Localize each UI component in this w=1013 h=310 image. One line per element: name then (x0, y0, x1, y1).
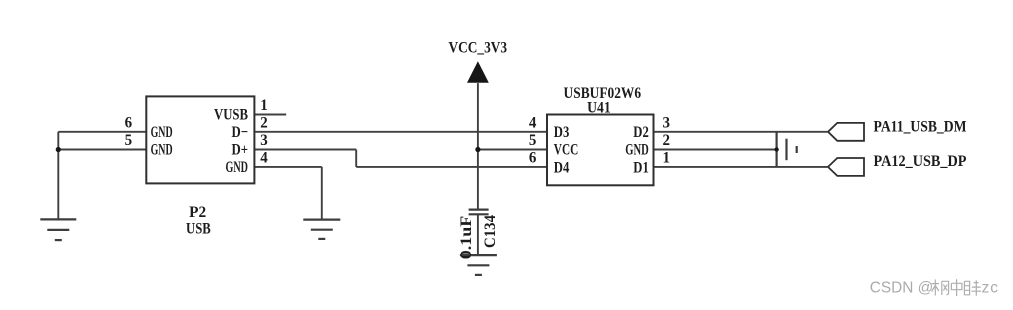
svg-text:GND: GND (625, 142, 649, 159)
svg-text:GND: GND (226, 159, 249, 176)
wire U41 pin2 GND (654, 149, 777, 151)
svg-text:1: 1 (260, 97, 268, 114)
svg-text:4: 4 (260, 150, 268, 167)
svg-text:D3: D3 (554, 124, 570, 141)
connector P2 box (146, 96, 254, 183)
wire D+ net to U41 pin6 (356, 166, 547, 168)
wire U41 pin1 to flag PA12 (654, 166, 828, 168)
svg-text:PA11_USB_DM: PA11_USB_DM (874, 118, 967, 135)
net flag PA11_USB_DM (828, 123, 864, 141)
svg-text:GND: GND (151, 142, 173, 159)
glyph feng (maple) (932, 280, 940, 296)
svg-text:P2: P2 (189, 204, 206, 221)
wire pin5 GND left (58, 149, 146, 151)
svg-text:0.1uF: 0.1uF (458, 216, 475, 260)
svg-text:PA12_USB_DP: PA12_USB_DP (874, 153, 967, 170)
wire P2 pin4 GND horizontal (254, 166, 321, 168)
svg-text:VCC: VCC (554, 142, 579, 159)
glyph zhong (middle) (951, 279, 962, 296)
svg-text:D4: D4 (554, 159, 570, 176)
node junction dot VCC (475, 147, 480, 152)
svg-text:2: 2 (662, 132, 670, 149)
wire D+ net jog vertical (355, 150, 357, 167)
node junction dot left GND (56, 147, 61, 152)
ground C134 (460, 255, 497, 275)
wire VCC vertical from arrow to capacitor (477, 83, 479, 210)
svg-text:VCC_3V3: VCC_3V3 (449, 40, 508, 57)
svg-text:zc: zc (982, 279, 999, 296)
IC U41 box (547, 115, 654, 186)
svg-text:USB: USB (186, 221, 211, 238)
svg-text:4: 4 (529, 114, 537, 131)
svg-text:GND: GND (151, 124, 173, 141)
net flag PA12_USB_DP (828, 158, 864, 176)
svg-text:5: 5 (125, 132, 133, 149)
svg-text:1: 1 (662, 150, 670, 167)
ground sideways U41 pin2 (777, 132, 797, 168)
svg-text:2: 2 (260, 114, 268, 131)
node junction dot sideways ground (774, 147, 778, 151)
wire pin6 GND left (58, 131, 146, 133)
wire VCC to U41 pin5 (478, 149, 547, 151)
svg-text:D2: D2 (633, 124, 649, 141)
svg-text:D−: D− (232, 124, 249, 141)
wire pin1 VUSB stub (254, 114, 286, 116)
svg-text:3: 3 (260, 132, 268, 149)
svg-text:6: 6 (125, 114, 133, 131)
svg-text:C134: C134 (482, 215, 499, 248)
wire P2 pin4 GND vertical (321, 167, 323, 220)
wire D+ net horizontal from P2 (254, 149, 356, 151)
svg-text:D+: D+ (232, 142, 249, 159)
svg-text:5: 5 (529, 132, 537, 149)
watermark CSDN (870, 279, 999, 296)
power symbol VCC_3V3 arrow (467, 61, 489, 83)
wire D- net P2 to U41 (254, 131, 547, 133)
svg-text:6: 6 (529, 150, 537, 167)
svg-text:D1: D1 (633, 159, 649, 176)
svg-text:U41: U41 (587, 99, 611, 116)
wire U41 pin3 to flag PA11 (654, 131, 828, 133)
ground left (P2 shell) (40, 219, 76, 240)
wire C134 to ground (477, 214, 479, 255)
capacitor C134 plates (469, 210, 489, 215)
glyph mou (pupil) (964, 281, 969, 295)
svg-text:CSDN @: CSDN @ (870, 279, 934, 296)
wire left ground vertical (57, 132, 59, 220)
svg-text:VUSB: VUSB (214, 107, 248, 124)
svg-text:3: 3 (662, 114, 670, 131)
ground P2 pin4 (303, 220, 340, 239)
